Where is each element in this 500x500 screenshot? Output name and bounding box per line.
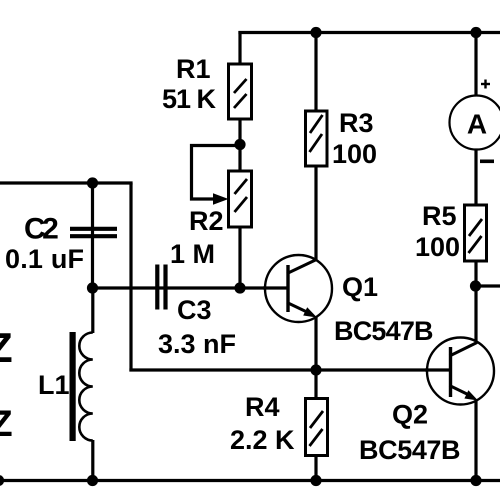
wire emitter rail to Q2 base [129, 368, 449, 371]
node R2-C3-Q1 junction [234, 282, 245, 293]
svg-text:Q2: Q2 [392, 400, 428, 430]
value 51 K [162, 84, 217, 114]
svg-text:C3: C3 [177, 295, 212, 325]
svg-text:R1: R1 [176, 54, 211, 84]
resistor R3 [306, 111, 328, 166]
node bottom rail left cut dot [0, 475, 4, 486]
node L1 bottom rail junction [87, 475, 98, 486]
cut-off text Z upper [0, 324, 13, 371]
svg-text:2.2 K: 2.2 K [230, 425, 295, 455]
wire R2 wiper feedback loop [192, 146, 241, 200]
ammeter U1 [450, 96, 500, 150]
wire down-leg to emitter rail [129, 183, 132, 372]
wire R4 top [314, 370, 317, 399]
label R2 [189, 206, 224, 236]
node Q1 emitter rail junction [310, 364, 321, 375]
wire Q1 collector [314, 166, 317, 261]
node R4 bottom rail junction [310, 475, 321, 486]
svg-text:R2: R2 [189, 206, 224, 236]
cut-off text Z lower [0, 403, 13, 444]
potentiometer R2 [229, 171, 252, 227]
label R1 [176, 54, 211, 84]
svg-text:A: A [467, 109, 487, 140]
value 1 M [170, 239, 215, 269]
label R4 [245, 392, 280, 422]
wire R4 bottom [314, 455, 317, 481]
inductor L1 [79, 288, 93, 481]
wire R3 top [314, 33, 317, 113]
wire R5 bottom to Q2 collector [474, 261, 477, 342]
value 100 R5 [415, 232, 460, 262]
svg-text:0.1 uF: 0.1 uF [5, 244, 84, 274]
wire top supply rail [238, 31, 500, 34]
svg-text:C2: C2 [24, 213, 58, 246]
transistor Q1 [263, 255, 332, 322]
wire C2 lead [91, 183, 94, 288]
svg-text:51 K: 51 K [162, 84, 217, 114]
wiper arrowhead into R2 [213, 193, 229, 205]
node output junction [470, 280, 481, 291]
ammeter minus mark [480, 160, 494, 164]
wire Q2 emitter to bottom rail [474, 399, 477, 481]
label R3 [339, 108, 374, 138]
wire Q2 base stub [425, 368, 450, 371]
label C2 [24, 213, 58, 246]
wire C3 node to Q1 base [93, 286, 288, 289]
label Q1 [342, 272, 378, 302]
label Q2 [392, 400, 428, 430]
node C2-C3-L1 junction [87, 282, 98, 293]
svg-text:R3: R3 [339, 108, 374, 138]
svg-text:Z: Z [0, 403, 13, 444]
resistor R4 [306, 399, 328, 456]
svg-text:3.3 nF: 3.3 nF [158, 329, 236, 359]
value BC547B Q1 [334, 316, 433, 346]
value 0.1 uF [5, 244, 84, 274]
label R5 [422, 201, 457, 231]
svg-text:BC547B: BC547B [359, 435, 460, 465]
resistor R5 [465, 205, 487, 261]
value 100 R3 [332, 139, 377, 169]
wire input rail left [0, 181, 133, 184]
svg-text:100: 100 [415, 232, 460, 262]
transistor Q2 [427, 338, 494, 405]
wire ammeter to R5 [474, 149, 477, 206]
wire R1 bottom to R2 top [238, 119, 241, 171]
wire ammeter top lead [474, 33, 477, 98]
node C2 top junction [87, 177, 98, 188]
wire R2 bottom to base node [238, 227, 241, 288]
label L1 [38, 370, 70, 400]
inductor L1 core bar [70, 332, 76, 441]
wire bottom ground rail [0, 479, 500, 482]
wire Q1 emitter [314, 316, 317, 370]
svg-text:L1: L1 [38, 370, 70, 400]
wire R1 top branch [238, 31, 241, 65]
svg-text:BC547B: BC547B [334, 316, 433, 346]
label C3 [177, 295, 212, 325]
svg-text:R4: R4 [245, 392, 280, 422]
ammeter plus mark [481, 80, 490, 89]
node Q2 emitter rail junction [470, 475, 481, 486]
svg-text:Q1: Q1 [342, 272, 378, 302]
svg-text:R5: R5 [422, 201, 457, 231]
svg-text:Z: Z [0, 324, 13, 371]
node ammeter top rail junction [470, 27, 481, 38]
node R1-R2 junction [234, 139, 245, 150]
capacitor C3 [157, 265, 165, 310]
value 2.2 K [230, 425, 295, 455]
value 3.3 nF [158, 329, 236, 359]
svg-text:1 M: 1 M [170, 239, 215, 269]
svg-text:100: 100 [332, 139, 377, 169]
node R3 top rail junction [310, 27, 321, 38]
wire output to right edge [476, 284, 500, 287]
value BC547B Q2 [359, 435, 460, 465]
capacitor C2 [70, 229, 117, 236]
resistor R1 [229, 64, 252, 119]
